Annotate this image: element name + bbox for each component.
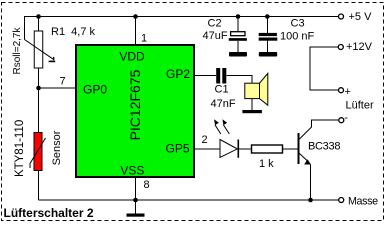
wire Masse rail	[39, 199, 339, 201]
svg-text:BC338: BC338	[308, 141, 340, 153]
wire junction to sensor	[38, 88, 40, 133]
node: emitter to Masse junction	[308, 198, 313, 203]
svg-text:1 k: 1 k	[259, 158, 274, 170]
ground below C3	[259, 52, 277, 57]
speaker	[245, 73, 268, 110]
ground below C2	[229, 52, 247, 57]
svg-text:2: 2	[202, 134, 208, 146]
wire GP5 pin 2 to LED	[194, 148, 220, 150]
terminal +5V	[339, 11, 373, 23]
capacitor C3	[259, 17, 278, 53]
node: rail pin1 junction	[133, 14, 138, 19]
svg-text:C1: C1	[215, 84, 229, 96]
svg-text:R1 4,7 k: R1 4,7 k	[51, 26, 96, 38]
resistor 1k	[252, 145, 283, 153]
svg-text:-: -	[344, 112, 348, 124]
svg-text:VSS: VSS	[120, 164, 144, 178]
svg-text:VDD: VDD	[119, 50, 145, 64]
terminal Luefter minus	[339, 112, 349, 124]
svg-text:47nF: 47nF	[211, 98, 236, 110]
wire C1 to speaker	[226, 76, 252, 84]
wire LED to R2	[239, 148, 252, 150]
node: C3 rail junction	[265, 14, 270, 19]
IC U1 PIC12F675	[76, 45, 194, 178]
svg-text:Sensor: Sensor	[51, 130, 63, 165]
svg-text:GP0: GP0	[83, 83, 107, 97]
svg-text:GP5: GP5	[165, 142, 189, 156]
wire +12V to + terminal	[310, 47, 338, 90]
terminal +12V	[338, 41, 372, 53]
resistor R1 potentiometer	[25, 17, 56, 89]
transistor Q1 BC338	[298, 120, 339, 200]
node: R1 / sensor / GP0 junction	[36, 86, 41, 91]
svg-text:C3: C3	[291, 18, 305, 30]
wire R2 to base	[283, 148, 298, 150]
sensor KTY81-110	[30, 133, 46, 171]
node: rail to R1 junction	[36, 14, 41, 19]
ground below speaker	[242, 110, 262, 113]
svg-text:+12V: +12V	[346, 41, 373, 53]
svg-text:1: 1	[141, 32, 147, 44]
svg-text:+5 V: +5 V	[349, 11, 373, 23]
svg-text:+: +	[345, 86, 351, 98]
svg-text:GP2: GP2	[166, 67, 190, 81]
svg-text:C2: C2	[208, 18, 222, 30]
node: C2 rail junction	[236, 14, 241, 19]
svg-text:Masse: Masse	[348, 196, 378, 208]
svg-text:PIC12F675: PIC12F675	[127, 69, 143, 140]
svg-text:47uF: 47uF	[203, 30, 228, 42]
node: VSS to Masse junction	[133, 198, 138, 203]
capacitor C1	[216, 68, 226, 84]
LED D1	[214, 119, 238, 158]
capacitor C2 electrolytic	[229, 17, 247, 53]
wire to pin 7 GP0	[39, 87, 77, 89]
svg-text:Lüfter: Lüfter	[346, 100, 374, 112]
svg-text:Lüfterschalter 2: Lüfterschalter 2	[4, 206, 94, 220]
wire GP2 to C1	[194, 75, 216, 77]
terminal Luefter plus	[339, 86, 351, 98]
wire +5V rail	[25, 17, 339, 40]
pin 1 VDD wire	[135, 17, 137, 46]
svg-text:100 nF: 100 nF	[280, 31, 315, 43]
terminal Masse	[339, 196, 378, 208]
svg-text:8: 8	[144, 179, 150, 191]
ground below pin 8	[127, 200, 145, 217]
wire sensor to Masse rail	[38, 171, 40, 201]
svg-text:7: 7	[60, 76, 66, 88]
svg-text:Rsoll=2,7k: Rsoll=2,7k	[12, 27, 23, 75]
svg-text:KTY81-110: KTY81-110	[14, 120, 26, 177]
pin 8 VSS wire	[135, 177, 137, 200]
